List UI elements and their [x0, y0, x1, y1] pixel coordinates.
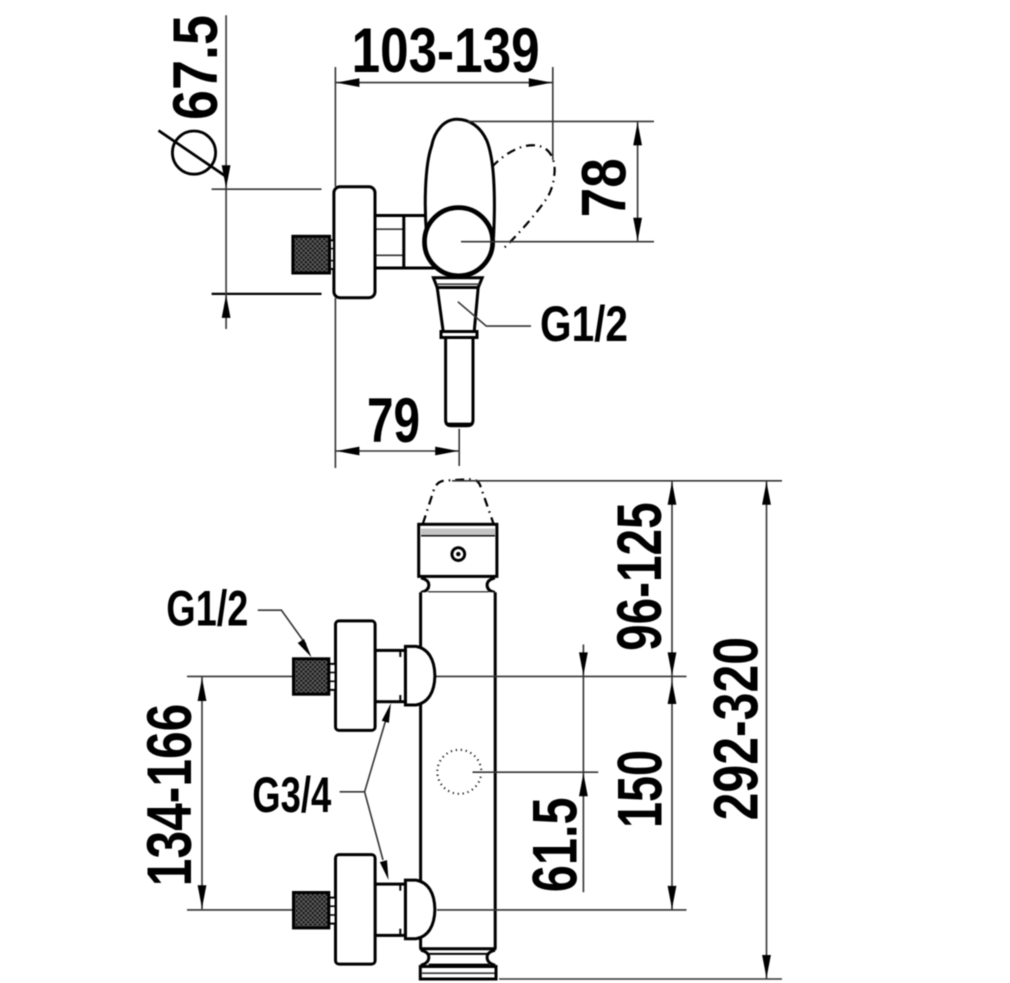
bottom inlet: coupling — [329, 898, 336, 924]
label 79 — [367, 386, 420, 456]
bottom inlet: nub on body — [405, 880, 435, 939]
handle fixing screw — [452, 548, 465, 561]
svg-text:292-320: 292-320 — [701, 637, 771, 821]
centerline through cartridge — [461, 241, 654, 243]
top inlet: connector — [375, 650, 405, 701]
svg-text:G1/2: G1/2 — [166, 580, 248, 636]
extension lines: bottom inlet centre — [187, 909, 687, 911]
label 61.5 — [521, 797, 591, 892]
dimension line 61.5 — [579, 645, 588, 893]
label 67.5 — [161, 15, 231, 120]
svg-text:96-125: 96-125 — [605, 502, 675, 651]
leader G3/4 (two arrows) — [340, 702, 395, 881]
bottom inlet: wall flange — [336, 855, 376, 965]
dimension line 79 — [335, 447, 459, 456]
dimension line Ø67.5 — [222, 15, 231, 329]
lever handle (side view) — [425, 119, 494, 236]
svg-text:G3/4: G3/4 — [252, 767, 331, 823]
extension line: tube centre (79 right) — [458, 429, 460, 466]
svg-text:79: 79 — [367, 386, 420, 456]
neck groove below collar — [421, 578, 495, 593]
leader G1/2 (top view) — [458, 302, 531, 326]
body column — [420, 592, 497, 949]
handle dome (dash-dot, front view) — [423, 479, 494, 524]
svg-text:134-166: 134-166 — [135, 704, 205, 887]
outlet tube — [446, 338, 473, 426]
dimension line 96-125 and 150 — [668, 481, 677, 910]
dimension line 103-139 — [335, 78, 552, 87]
label 96-125 — [605, 502, 675, 651]
extension line: handle top (78) — [468, 120, 654, 122]
extension line: outlet centre (61.5 bottom) — [473, 771, 599, 773]
extension line: body bottom (292-320) — [499, 978, 782, 980]
top inlet: coupling — [329, 664, 336, 690]
leader G1/2 (bottom view) — [258, 610, 315, 659]
dimension line 134-166 — [198, 677, 207, 909]
extension line: 103-139 right — [552, 67, 554, 160]
extension line: body top (96-125 / 292-320) — [452, 480, 782, 482]
cartridge cap circle — [425, 208, 493, 276]
handle collar band — [419, 524, 497, 576]
svg-text:103-139: 103-139 — [352, 16, 540, 86]
extension lines Ø67.5 (flange diameter) — [212, 189, 322, 294]
svg-text:67.5: 67.5 — [161, 15, 231, 120]
label 150 — [606, 750, 676, 828]
label 78 — [570, 158, 640, 217]
alternate handle position (dash-dot) — [492, 145, 555, 249]
top inlet: nub on body — [405, 646, 435, 705]
label 103-139 — [352, 16, 540, 86]
outlet cone — [437, 288, 478, 338]
dimension line 78 — [633, 121, 642, 241]
label G1/2 (bottom view) — [166, 580, 248, 636]
bottom cap — [420, 967, 496, 980]
extension lines: top inlet centre — [187, 675, 687, 677]
dotted outlet circle — [437, 750, 481, 794]
label G1/2 (top view) — [540, 296, 628, 352]
svg-text:150: 150 — [606, 750, 676, 828]
label 134-166 — [135, 704, 205, 887]
bottom inlet: connector — [375, 884, 405, 935]
label G3/4 — [252, 767, 331, 823]
diameter symbol — [159, 131, 228, 178]
wall flange (side view) — [334, 187, 375, 298]
top inlet: knurled screw G1/2 — [294, 659, 329, 694]
bottom inlet: knurled screw G3/4 — [294, 893, 329, 928]
bottom groove ring — [421, 950, 496, 965]
svg-text:G1/2: G1/2 — [540, 296, 628, 352]
dimension line 292-320 — [762, 481, 771, 979]
label 292-320 — [701, 637, 771, 821]
top inlet: wall flange — [336, 621, 376, 731]
svg-text:61.5: 61.5 — [521, 797, 591, 892]
threaded connector and valve body column (side) — [375, 216, 436, 269]
outlet collar — [433, 278, 482, 288]
knurled inlet screw (side view) — [293, 236, 334, 273]
svg-text:78: 78 — [570, 158, 640, 217]
extension line: 103-139 left / 79 left — [334, 67, 336, 468]
